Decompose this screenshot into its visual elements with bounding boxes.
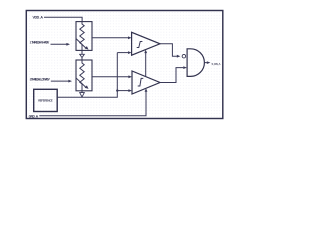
node S_ON output label — [212, 62, 221, 66]
node GND_A label — [29, 114, 39, 118]
wire reference output riser — [57, 53, 117, 98]
svg-text:REFERENCE: REFERENCE — [38, 98, 53, 102]
wire riser to U1 inverting input — [117, 51, 131, 54]
comparator U1 — [132, 32, 160, 55]
wire U2 top to U1 bottom pin — [144, 50, 147, 77]
connector arrow between R1 and R2 — [80, 50, 85, 60]
svg-text:VDD_A: VDD_A — [33, 15, 44, 19]
potentiometer R2 box — [76, 60, 92, 91]
label I_THRESH_LOW 4.0V — [29, 78, 51, 82]
node VDD_A label — [33, 15, 44, 19]
wire R2 tap to U2 input — [92, 75, 132, 78]
svg-text:I_THRESH VH 4.6V: I_THRESH VH 4.6V — [29, 41, 50, 45]
wire label1 arrow into R1 — [51, 43, 71, 46]
wire R1 tap to U1 input — [92, 36, 132, 39]
border frame — [26, 11, 223, 119]
wire U1 output to gate — [160, 44, 180, 58]
comparator U2 — [132, 71, 160, 94]
AND gate U3 — [187, 49, 204, 77]
node junction ref/riser — [116, 89, 118, 91]
wire gate output arrow — [204, 61, 210, 64]
potentiometer R1 box — [76, 22, 92, 51]
wire GND rail to U2 bottom pin — [39, 88, 147, 115]
wire VDD_A rail to R1 top — [44, 17, 82, 21]
svg-text:S_ON_A: S_ON_A — [212, 62, 221, 66]
label I_THRESH VH 4.6V — [29, 41, 50, 45]
wire riser to U2 inverting input — [117, 89, 132, 92]
reference block U4 — [34, 89, 58, 111]
wire label2 arrow into R2 — [51, 80, 72, 83]
wire U2 output to gate — [160, 66, 187, 82]
connector arrow below R2 — [80, 91, 85, 97]
svg-text:GND_A: GND_A — [29, 114, 39, 118]
inverter bubble at gate input — [182, 54, 186, 58]
svg-text:I_THRESH_LOW 4.0V: I_THRESH_LOW 4.0V — [29, 78, 51, 82]
